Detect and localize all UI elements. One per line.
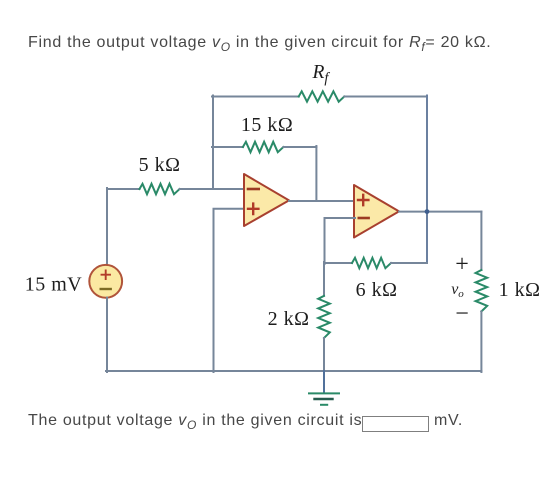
- op-amp U1: [244, 174, 289, 226]
- svg-text:15 kΩ: 15 kΩ: [241, 114, 293, 136]
- wire: input row to U1 inverting input: [180, 188, 245, 190]
- junction: U2 output node: [425, 209, 430, 214]
- U1 non-inverting pin mark: [248, 204, 258, 214]
- problem statement text: [28, 34, 491, 54]
- wire: U1 output to U2 non-inverting input: [289, 200, 355, 202]
- wire: source top vertical: [106, 188, 108, 265]
- svg-text:Rf: Rf: [312, 62, 331, 87]
- wire: 15k feedback row right stub: [283, 146, 316, 148]
- resistor R2 15k: [243, 142, 284, 152]
- wire: vertical from 15k down to U1 output: [315, 146, 317, 201]
- wire: 6k row right stub: [391, 262, 427, 264]
- svg-text:−: −: [455, 301, 469, 327]
- wire: left feedback vertical (node A to Rf and 15k): [212, 96, 214, 190]
- svg-text:2 kΩ: 2 kΩ: [268, 308, 310, 330]
- U2 inverting pin mark: [359, 217, 369, 220]
- wire: 2k bottom stub: [323, 338, 325, 372]
- wire: right vertical from Rf down to op-amp U2 output node: [426, 96, 428, 264]
- wire: U1 non-inverting input branch: [214, 209, 246, 372]
- wire: U2 inverting input branch: [325, 218, 356, 264]
- wire: top feedback horizontal, left segment: [212, 96, 299, 98]
- svg-text:6 kΩ: 6 kΩ: [356, 279, 398, 301]
- answer sentence text: [28, 412, 362, 432]
- wire: output right vertical down to 1k: [480, 212, 482, 270]
- resistor R4 6k: [352, 258, 391, 268]
- wire: 6k row left stub: [325, 262, 353, 264]
- wire: top feedback horizontal, right segment: [344, 96, 427, 98]
- source plus terminal mark: [102, 271, 111, 280]
- wire: 1k bottom stub: [480, 311, 482, 372]
- wire: bottom rail: [106, 370, 481, 372]
- wire: 2k top stub: [323, 262, 325, 296]
- wire: U2 output horizontal: [399, 211, 481, 213]
- resistor R1 5k: [140, 184, 180, 194]
- resistor Rf: [299, 91, 345, 101]
- wire: ground stub: [323, 371, 325, 393]
- svg-text:5 kΩ: 5 kΩ: [139, 154, 181, 176]
- svg-text:vo: vo: [451, 281, 464, 300]
- voltage source Vs 15 mV: [89, 265, 122, 298]
- op-amp U2: [354, 185, 399, 238]
- wire: 15k feedback row left stub: [212, 146, 243, 148]
- U2 non-inverting pin mark: [358, 195, 368, 205]
- answer input box: [362, 416, 429, 432]
- resistor RL 1k: [476, 270, 488, 311]
- wire: source bottom vertical: [106, 298, 108, 372]
- source minus terminal mark: [101, 288, 111, 290]
- resistor R3 2k: [318, 296, 330, 338]
- wire: input row left stub: [107, 188, 140, 190]
- svg-text:15 mV: 15 mV: [25, 274, 83, 296]
- svg-text:1 kΩ: 1 kΩ: [499, 279, 541, 301]
- ground: [309, 393, 339, 404]
- svg-text:+: +: [455, 252, 469, 278]
- answer unit text: [434, 412, 463, 430]
- U1 inverting pin mark: [248, 188, 259, 191]
